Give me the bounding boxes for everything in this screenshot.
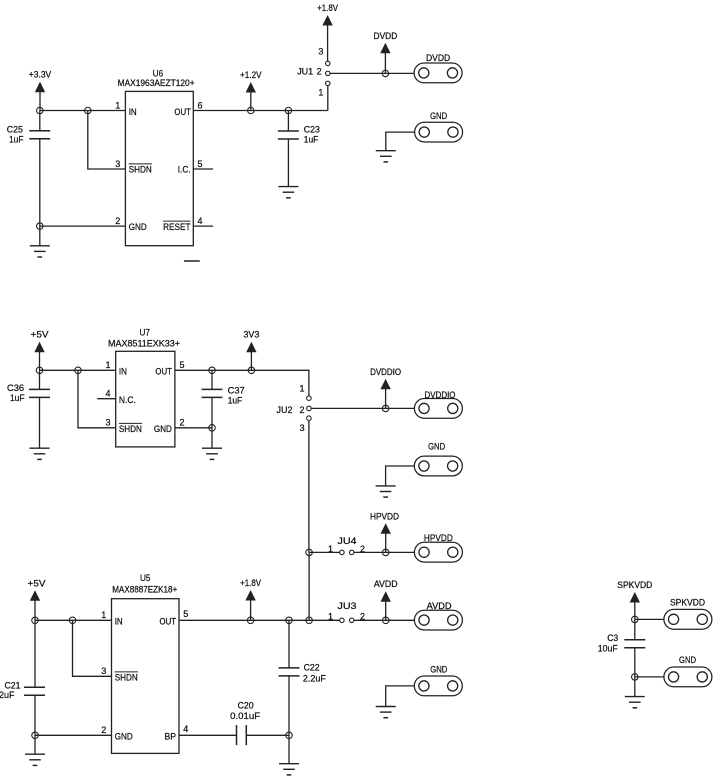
svg-text:U5: U5 xyxy=(140,573,151,583)
wire GND net U5 xyxy=(35,734,112,736)
connector DVDDIO xyxy=(414,390,462,418)
node C3 bottom xyxy=(632,674,639,681)
svg-text:MAX8511EXK33+: MAX8511EXK33+ xyxy=(108,339,180,349)
wire IN net U7 xyxy=(40,369,116,371)
power flag DVDDIO xyxy=(370,367,401,409)
svg-text:SHDN: SHDN xyxy=(115,673,138,683)
svg-text:10uF: 10uF xyxy=(598,643,618,653)
wire C20 to C22 node xyxy=(246,734,289,736)
svg-text:1uF: 1uF xyxy=(304,134,319,144)
node DVDDIO xyxy=(382,405,389,412)
wire GND pin stub U7 xyxy=(175,427,212,429)
svg-text:1: 1 xyxy=(318,87,323,97)
svg-text:HPVDD: HPVDD xyxy=(370,511,399,521)
pin label SHDN U6 xyxy=(129,164,152,175)
ground xyxy=(30,246,50,257)
wire HPVDD branch down to OUT net xyxy=(308,552,310,620)
svg-text:GND: GND xyxy=(428,442,445,452)
node BP net xyxy=(286,732,293,739)
power flag AVDD xyxy=(374,579,398,620)
ground xyxy=(376,151,396,162)
wire SHDN branch U5 xyxy=(73,620,112,676)
wire C25 top lead xyxy=(39,111,41,131)
node GND net U5 xyxy=(32,732,39,739)
svg-text:I.C.: I.C. xyxy=(178,165,191,175)
wire to ground BP net xyxy=(288,735,290,763)
node SHDN branch U6 xyxy=(85,107,92,114)
svg-text:1: 1 xyxy=(115,100,120,110)
wire GND connector to ground xyxy=(386,466,415,486)
wire C22 top lead xyxy=(288,620,290,668)
power +5V xyxy=(31,330,49,371)
connector HPVDD xyxy=(414,533,462,562)
jumper JU3 xyxy=(340,618,354,623)
svg-text:1uF: 1uF xyxy=(9,135,24,145)
svg-text:RESET: RESET xyxy=(163,222,191,232)
svg-text:JU1: JU1 xyxy=(297,66,313,76)
svg-text:4: 4 xyxy=(198,216,203,226)
node AVDD xyxy=(382,617,389,624)
svg-text:2: 2 xyxy=(180,418,185,428)
jumper JU2 xyxy=(307,396,312,421)
ground xyxy=(376,486,396,497)
svg-text:GND: GND xyxy=(129,222,147,232)
wire to ground U6 xyxy=(39,226,41,246)
svg-text:N.C.: N.C. xyxy=(119,395,136,405)
wire JU1 pin1 to OUT net xyxy=(327,86,329,111)
svg-text:IN: IN xyxy=(119,367,127,377)
svg-text:U7: U7 xyxy=(139,327,150,337)
jumper JU1 xyxy=(326,61,331,86)
wire SHDN branch U7 xyxy=(78,370,116,428)
svg-text:GND: GND xyxy=(679,655,696,665)
power flag SPKVDD xyxy=(617,580,652,619)
svg-text:JU2: JU2 xyxy=(277,405,293,415)
svg-text:+5V: +5V xyxy=(31,330,49,340)
svg-text:SPKVDD: SPKVDD xyxy=(670,597,705,607)
svg-text:JU3: JU3 xyxy=(338,601,357,611)
regulator U7 MAX8511EXK33+ xyxy=(116,351,175,447)
node GND net U6 xyxy=(37,223,44,230)
wire GND connector to ground xyxy=(386,686,415,707)
svg-text:DVDDIO: DVDDIO xyxy=(370,367,401,377)
svg-text:1: 1 xyxy=(105,360,110,370)
node C36 top xyxy=(36,367,43,374)
svg-text:C23: C23 xyxy=(304,124,320,134)
svg-text:OUT: OUT xyxy=(174,107,191,117)
wire OUT net U5 xyxy=(179,619,340,621)
capacitor C20 xyxy=(237,725,247,745)
regulator U6 MAX1963AEZT120+ xyxy=(125,91,193,245)
svg-text:1: 1 xyxy=(101,610,106,620)
capacitor C3 xyxy=(624,640,645,648)
node HPVDD xyxy=(382,549,389,556)
wire OUT net U7 to JU2 pin1 xyxy=(175,370,309,396)
wire to SPKVDD connector xyxy=(635,618,664,620)
svg-text:MAX8887EZK18+: MAX8887EZK18+ xyxy=(112,585,177,595)
svg-text:1: 1 xyxy=(328,611,333,621)
svg-text:C25: C25 xyxy=(7,125,23,135)
connector DVDD xyxy=(414,53,462,83)
connector SPKVDD xyxy=(664,597,712,629)
regulator U5 MAX8887EZK18+ xyxy=(112,599,180,754)
capacitor C25 xyxy=(29,131,50,139)
svg-text:SPKVDD: SPKVDD xyxy=(617,580,652,590)
svg-text:5: 5 xyxy=(183,609,188,619)
wire to GND connector xyxy=(635,676,664,678)
wire C22 bottom lead xyxy=(288,676,290,735)
capacitor C36 xyxy=(29,389,50,397)
svg-text:1: 1 xyxy=(299,384,304,394)
svg-text:3V3: 3V3 xyxy=(243,330,259,340)
svg-text:1uF: 1uF xyxy=(10,393,25,403)
jumper JU4 xyxy=(340,550,354,555)
wire IN net U5 xyxy=(35,619,112,621)
wire GND connector to ground xyxy=(386,132,415,151)
ground xyxy=(376,707,396,718)
wire pin 4 stub U6 xyxy=(193,225,213,227)
svg-text:+3.3V: +3.3V xyxy=(29,70,52,80)
power +5V xyxy=(28,578,46,620)
wire pin 5 stub U6 xyxy=(193,168,213,170)
svg-text:+1.2V: +1.2V xyxy=(240,70,262,80)
svg-text:C36: C36 xyxy=(7,383,24,393)
svg-text:1uF: 1uF xyxy=(228,396,243,406)
svg-text:+1.8V: +1.8V xyxy=(240,578,261,588)
wire OUT net U6 xyxy=(193,110,327,112)
ground xyxy=(278,187,298,198)
wire C3 bottom lead xyxy=(634,648,636,677)
node +1.8V xyxy=(247,617,254,624)
connector GND xyxy=(664,655,712,687)
capacitor C37 xyxy=(202,389,223,397)
svg-text:SHDN: SHDN xyxy=(119,424,142,434)
svg-text:GND: GND xyxy=(154,424,172,434)
wire C21 top lead xyxy=(34,620,36,687)
pin label RESET U6 xyxy=(163,221,191,232)
svg-text:GND: GND xyxy=(430,665,447,675)
svg-text:DVDD: DVDD xyxy=(374,31,398,41)
ground xyxy=(25,754,45,765)
connector GND xyxy=(414,665,462,696)
svg-text:5: 5 xyxy=(198,159,203,169)
node HPVDD branch xyxy=(306,549,313,556)
svg-text:2: 2 xyxy=(317,66,322,76)
svg-text:JU4: JU4 xyxy=(338,536,357,546)
svg-text:6: 6 xyxy=(198,100,203,110)
svg-text:2: 2 xyxy=(299,405,304,415)
svg-text:IN: IN xyxy=(115,617,123,627)
svg-text:AVDD: AVDD xyxy=(374,579,398,589)
ground xyxy=(279,764,299,775)
svg-text:C22: C22 xyxy=(304,662,320,672)
wire C37 to ground xyxy=(211,428,213,448)
node C37 bottom xyxy=(209,425,216,432)
wire stub mark below U6 xyxy=(184,260,200,262)
svg-text:4: 4 xyxy=(105,388,110,398)
svg-text:C20: C20 xyxy=(238,700,254,710)
svg-text:DVDD: DVDD xyxy=(426,53,451,63)
pin label SHDN U7 xyxy=(119,423,142,434)
wire JU3 pin2 to AVDD xyxy=(354,619,414,621)
svg-text:4: 4 xyxy=(183,724,188,734)
node SHDN branch U5 xyxy=(69,617,76,624)
node SPKVDD xyxy=(632,616,639,623)
svg-text:3: 3 xyxy=(105,418,110,428)
svg-text:OUT: OUT xyxy=(155,367,172,377)
connector GND xyxy=(415,111,463,142)
wire C36 top lead xyxy=(39,370,41,389)
power +3.3V xyxy=(29,70,52,111)
wire C37 bottom lead xyxy=(211,397,213,427)
power +1.2V xyxy=(240,70,262,111)
wire C23 top lead xyxy=(287,111,289,132)
power flag HPVDD xyxy=(370,511,399,552)
node C37 top xyxy=(209,367,216,374)
node C25 top xyxy=(37,107,44,114)
connector AVDD xyxy=(414,601,462,630)
power +1.8V xyxy=(317,3,338,61)
capacitor C22 xyxy=(279,668,300,676)
wire C37 top lead xyxy=(211,370,213,389)
svg-text:2: 2 xyxy=(101,725,106,735)
wire to JU4 pin1 xyxy=(309,551,340,553)
wire GND net U6 xyxy=(40,225,126,227)
svg-text:C3: C3 xyxy=(607,633,618,643)
ground xyxy=(625,697,645,708)
svg-text:3: 3 xyxy=(300,423,305,433)
node C22 top xyxy=(286,617,293,624)
node SHDN branch U7 xyxy=(75,367,82,374)
power 3V3 xyxy=(243,330,259,371)
wire C25 bottom lead xyxy=(39,139,41,226)
svg-text:OUT: OUT xyxy=(160,617,177,627)
svg-text:GND: GND xyxy=(115,732,133,742)
svg-text:2: 2 xyxy=(115,216,120,226)
svg-text:3: 3 xyxy=(115,159,120,169)
ground xyxy=(202,448,222,459)
svg-text:3: 3 xyxy=(318,47,323,57)
node C23 top xyxy=(285,107,292,114)
wire BP pin to C20 xyxy=(179,734,237,736)
wire IN net U6 xyxy=(40,110,126,112)
node 3V3 xyxy=(248,367,255,374)
svg-text:GND: GND xyxy=(430,111,447,121)
capacitor C21 xyxy=(24,687,45,695)
svg-text:MAX1963AEZT120+: MAX1963AEZT120+ xyxy=(118,78,195,88)
wire to ground U5 xyxy=(34,735,36,754)
svg-text:2.2uF: 2.2uF xyxy=(0,690,15,700)
node +1.2V xyxy=(248,107,255,114)
svg-text:SHDN: SHDN xyxy=(129,165,152,175)
power +1.8V xyxy=(240,578,261,620)
wire SHDN branch U6 xyxy=(88,111,126,170)
wire JU4 pin2 to HPVDD xyxy=(354,551,414,553)
wire C21 bottom lead xyxy=(34,695,36,735)
node DVDD xyxy=(382,70,389,77)
svg-text:BP: BP xyxy=(165,732,177,742)
wire JU1 pin2 to DVDD xyxy=(330,72,414,74)
svg-text:C37: C37 xyxy=(228,386,245,396)
power flag DVDD xyxy=(374,31,398,74)
svg-text:+5V: +5V xyxy=(28,578,46,588)
wire C3 top lead xyxy=(634,619,636,639)
node OUT junction xyxy=(306,617,313,624)
ground xyxy=(30,448,50,459)
wire C23 bottom lead xyxy=(287,139,289,187)
connector GND xyxy=(414,442,462,476)
svg-text:+1.8V: +1.8V xyxy=(317,3,338,13)
svg-text:0.01uF: 0.01uF xyxy=(230,711,261,721)
wire to ground SPKVDD net xyxy=(634,677,636,697)
svg-text:IN: IN xyxy=(129,107,137,117)
svg-text:3: 3 xyxy=(101,666,106,676)
node C21 top xyxy=(32,617,39,624)
wire pin 4 stub U7 xyxy=(97,398,116,400)
capacitor C23 xyxy=(278,131,299,139)
wire C36 bottom lead xyxy=(39,397,41,448)
pin label SHDN U5 xyxy=(115,672,138,683)
svg-text:2.2uF: 2.2uF xyxy=(303,674,327,684)
wire JU2 pin3 down xyxy=(308,421,310,553)
wire JU2 pin2 to DVDDIO xyxy=(311,407,414,409)
svg-text:AVDD: AVDD xyxy=(427,601,453,611)
svg-text:5: 5 xyxy=(180,360,185,370)
